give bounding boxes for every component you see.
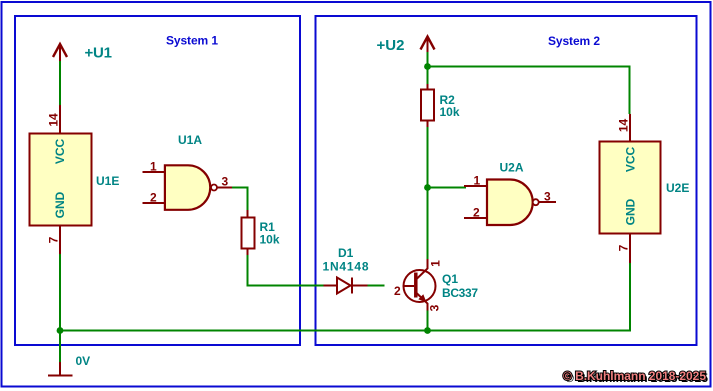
svg-text:VCC: VCC — [53, 139, 67, 165]
svg-text:3: 3 — [544, 190, 551, 204]
U2A bubble — [533, 199, 539, 205]
U1A pin 2 — [143, 202, 165, 204]
IC U2E power unit — [600, 142, 661, 234]
svg-text:14: 14 — [47, 113, 61, 127]
svg-text:3: 3 — [222, 175, 229, 189]
value R1 10k — [260, 233, 280, 247]
label +U2 — [377, 37, 405, 54]
wire R2 to node B — [427, 127, 429, 188]
svg-text:1: 1 — [429, 260, 443, 267]
svg-text:GND: GND — [624, 198, 638, 225]
svg-text:10k: 10k — [260, 233, 280, 247]
U1A pin 3 — [217, 187, 232, 189]
junction Q1 emitter at 0V rail — [424, 327, 431, 334]
label U1E — [96, 174, 119, 188]
U1A pin 3 number — [222, 175, 229, 189]
svg-text:U1A: U1A — [178, 133, 202, 147]
U2E pin 7 — [629, 234, 631, 264]
resistor R2 — [421, 84, 434, 127]
wire U1E pin 7 to ground rail — [59, 254, 61, 362]
label 0V — [76, 354, 91, 368]
svg-text:7: 7 — [47, 236, 61, 243]
Q1 pin 2 number — [394, 284, 401, 298]
U1A pin 2 number — [150, 191, 157, 205]
U1A pin 1 — [143, 171, 165, 173]
NAND gate U2A body — [487, 180, 533, 226]
value D1 1N4148 — [323, 260, 369, 274]
System 1 box — [15, 16, 300, 345]
IC U1E power unit — [30, 134, 92, 226]
svg-text:7: 7 — [617, 244, 631, 251]
label U1A — [178, 133, 202, 147]
System 2 box — [316, 16, 697, 345]
U2A pin 3 — [539, 201, 556, 203]
power symbol +U1 — [53, 44, 67, 61]
U2E pin GND name — [624, 198, 638, 225]
wire node A to R2 — [427, 67, 429, 85]
wire +U2 to node A — [427, 52, 429, 67]
U2A pin 2 — [464, 217, 487, 219]
svg-text:© B.Kuhlmann 2018-2025: © B.Kuhlmann 2018-2025 — [563, 369, 706, 383]
svg-text:14: 14 — [617, 119, 631, 133]
U1E pin VCC name — [53, 139, 67, 165]
wire Q1 emitter to 0V rail — [427, 311, 429, 331]
svg-text:3: 3 — [428, 304, 442, 311]
U2A pin 2 number — [473, 206, 480, 220]
label D1 — [338, 246, 354, 260]
U2E pin 14 — [629, 114, 631, 142]
U2A pin 1 number — [474, 174, 481, 188]
U1A pin 1 number — [150, 160, 157, 174]
U2A pin 3 number — [544, 190, 551, 204]
power symbol +U2 — [421, 37, 435, 53]
U1E pin GND name — [53, 191, 67, 218]
svg-text:+U1: +U1 — [85, 45, 113, 62]
svg-text:System 1: System 1 — [166, 34, 218, 48]
junction node 0V at U1E — [57, 327, 64, 334]
wire 0V rail to U2E pin 7 — [60, 263, 630, 331]
svg-text:2: 2 — [394, 284, 401, 298]
U2E pin 7 number — [617, 244, 631, 251]
resistor R1 — [242, 210, 255, 255]
wire R1 to D1 — [248, 255, 324, 286]
wire node A to U2E pin 14 — [428, 67, 630, 115]
svg-text:1N4148: 1N4148 — [323, 260, 369, 274]
svg-text:U1E: U1E — [96, 174, 119, 188]
label R1 — [260, 220, 276, 234]
label R2 — [440, 93, 456, 107]
svg-text:Q1: Q1 — [442, 272, 458, 286]
System 1 label — [166, 34, 218, 48]
label U2A — [500, 161, 524, 175]
svg-text:1: 1 — [150, 160, 157, 174]
U1E pin 14 number — [47, 113, 61, 127]
svg-text:1: 1 — [474, 174, 481, 188]
copyright text — [563, 369, 706, 383]
wire U1A output to R1 — [232, 188, 248, 211]
svg-text:2: 2 — [150, 191, 157, 205]
value Q1 BC337 — [442, 286, 478, 300]
U1E pin 7 number — [47, 236, 61, 243]
Q1 pin 3 number — [428, 304, 442, 311]
U2A pin 1 — [464, 185, 487, 187]
svg-text:U2E: U2E — [666, 181, 689, 195]
svg-text:10k: 10k — [440, 105, 460, 119]
transistor Q1 — [404, 259, 436, 311]
wire D1 to Q1 base — [368, 285, 385, 287]
wire node B to U2A pin 1 — [428, 187, 467, 189]
svg-text:BC337: BC337 — [442, 286, 478, 300]
svg-text:+U2: +U2 — [377, 37, 405, 54]
wire node B to Q1 collector — [427, 188, 429, 260]
svg-text:0V: 0V — [76, 354, 91, 368]
svg-text:U2A: U2A — [500, 161, 524, 175]
svg-text:D1: D1 — [338, 246, 354, 260]
svg-text:2: 2 — [473, 206, 480, 220]
junction node B — [424, 184, 431, 191]
label +U1 — [85, 45, 113, 62]
U2E pin 14 number — [617, 119, 631, 133]
U1A bubble — [211, 185, 217, 191]
junction node A — [424, 63, 431, 70]
U1E pin 7 — [59, 226, 61, 255]
label U2E — [666, 181, 689, 195]
label Q1 — [442, 272, 458, 286]
U1E pin 14 — [59, 105, 61, 134]
svg-text:GND: GND — [53, 191, 67, 218]
NAND gate U1A body — [165, 165, 210, 210]
copyright shadow — [565, 371, 708, 385]
value R2 10k — [440, 105, 460, 119]
Q1 pin 1 number — [429, 260, 443, 267]
diode D1 — [324, 278, 368, 294]
wire +U1 to U1E pin 14 — [59, 61, 61, 105]
U2E pin VCC name — [624, 147, 638, 173]
ground symbol 0V — [48, 362, 73, 376]
svg-text:VCC: VCC — [624, 147, 638, 173]
svg-text:System 2: System 2 — [548, 34, 600, 48]
System 2 label — [548, 34, 600, 48]
